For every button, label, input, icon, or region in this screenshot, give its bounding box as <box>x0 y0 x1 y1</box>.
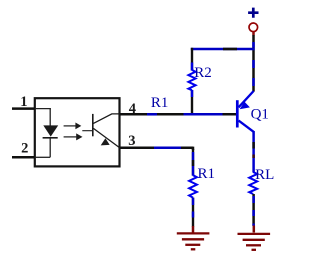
svg-text:R2: R2 <box>194 65 212 81</box>
LED cathode bar <box>43 137 58 139</box>
wire pin 1 <box>12 107 35 110</box>
resistor R2 <box>188 70 195 90</box>
wire top rail <box>191 48 255 51</box>
wire pin3 run <box>119 147 193 150</box>
svg-text:2: 2 <box>21 141 28 157</box>
svg-text:R1: R1 <box>198 166 216 182</box>
Q1 emitter arrow (PNP, points to base) <box>240 102 250 109</box>
svg-text:4: 4 <box>129 101 136 117</box>
svg-text:Q1: Q1 <box>251 107 269 123</box>
ground (RL) <box>238 226 271 250</box>
svg-text:R1: R1 <box>151 95 169 111</box>
resistor R1 <box>189 175 197 197</box>
wire LED branch vertical <box>49 109 51 158</box>
phototransistor collector <box>93 114 119 124</box>
wire pin 2 <box>12 156 35 159</box>
wire R1 to ground <box>192 198 194 227</box>
LED D1 (emitter diode) <box>43 125 58 136</box>
svg-text:RL: RL <box>255 167 274 183</box>
transistor Q1 <box>237 91 253 132</box>
phototransistor emitter arrow <box>101 138 110 145</box>
wire supply vertical <box>252 32 255 92</box>
phototransistor base bar <box>92 114 94 136</box>
wire pin3 vertical to R1 <box>192 149 194 176</box>
ground (R1) <box>177 226 210 249</box>
wire R2 lower stub <box>191 90 193 116</box>
resistor RL <box>249 172 257 194</box>
wire R2 upper stub <box>191 48 193 71</box>
power terminal + <box>248 8 258 18</box>
wire pin 1 internal <box>35 108 51 110</box>
wire RL to ground <box>252 194 255 226</box>
light arrow upper <box>64 125 76 127</box>
wire Q1 collector down <box>252 131 255 173</box>
optocoupler U1 box <box>35 98 120 166</box>
wire pin 2 internal <box>35 156 50 158</box>
phototransistor base lead <box>82 130 93 132</box>
svg-text:3: 3 <box>128 133 135 149</box>
supply terminal circle <box>249 23 258 32</box>
light arrow lower <box>64 136 77 138</box>
wire pin4 to base <box>119 113 236 116</box>
phototransistor emitter <box>93 128 119 147</box>
